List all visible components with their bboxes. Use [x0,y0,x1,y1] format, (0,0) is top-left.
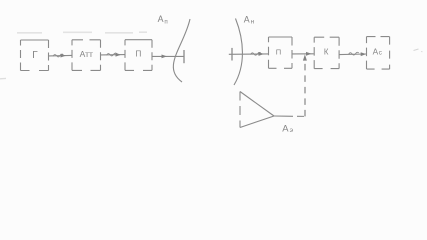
transmit dipole bar [183,50,185,63]
svg-text:н: н [251,19,255,26]
wire Att to P1 [101,53,125,56]
feed wire P1 to dipole [153,55,184,57]
svg-text:э: э [290,127,294,134]
svg-text:П: П [276,47,281,56]
arrowhead on wire G-Att [61,54,67,58]
svg-text:А: А [158,14,164,24]
dashed vertical wire up to P2-K junction [304,61,306,117]
box Ac [367,37,390,70]
arrowhead up at junction [303,54,307,60]
arrowhead on feed wire [162,55,168,59]
box P2 (receiver) [269,37,293,68]
label An [244,14,255,25]
svg-text:А: А [282,122,289,133]
faint show-through band [17,31,147,34]
svg-text:К: К [324,48,329,57]
arrowhead on wire P2-K [306,52,312,56]
box P1 (transmitter) [125,40,152,71]
dashed wire from Ae apex [274,115,286,117]
faint smear left edge [0,77,6,79]
equivalent antenna triangle Ae [240,92,274,128]
box K [314,37,339,68]
wire P2 to K [293,53,314,55]
svg-text:А: А [244,14,250,24]
wire K to Ac [340,52,367,55]
arrowhead on wire K-Ac [361,52,367,56]
faint smudge right [414,49,419,51]
receive dish arc An [234,19,242,86]
label Ap [158,14,168,25]
label Ae [282,122,293,134]
feed wire dipole to P2 [229,52,268,55]
svg-text:Атт: Атт [80,49,93,59]
label Ac [373,46,383,56]
box Att (attenuator) [72,40,101,71]
wire G to Att [49,54,72,57]
box G (generator) [21,40,49,71]
svg-text:Г: Г [32,50,38,61]
arrowhead on wire Att-P1 [116,53,122,57]
transmit dish arc Ap [173,19,190,82]
arrowhead on receive feed wire [259,52,265,56]
receive dipole bar [231,48,233,61]
svg-text:п: п [164,18,167,25]
svg-text:П: П [135,49,141,59]
